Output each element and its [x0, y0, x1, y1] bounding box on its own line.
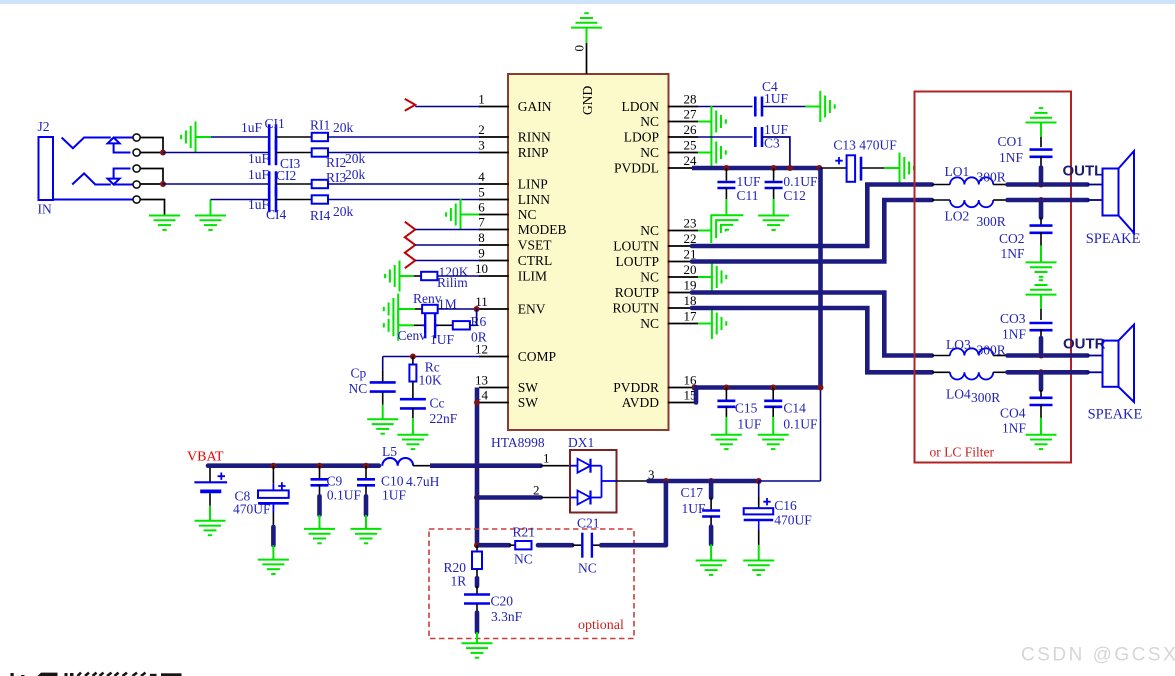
wire LO2 out [993, 199, 1007, 201]
svg-text:LO4: LO4 [946, 387, 971, 402]
svg-text:1NF: 1NF [999, 150, 1023, 165]
wire Renv stem [398, 308, 415, 310]
svg-text:DX1: DX1 [568, 435, 594, 450]
svg-text:optional: optional [578, 618, 624, 633]
bus PVDDL [692, 166, 821, 171]
ground Cenv [384, 310, 398, 341]
wire LO4 out [993, 371, 1007, 373]
svg-text:CO2: CO2 [999, 231, 1025, 246]
wire CI4 to RI4 [276, 199, 312, 201]
inductor L5 [382, 458, 413, 466]
no-connect zigzag pins 7-9 [405, 222, 415, 269]
speaker R cone [1119, 325, 1135, 402]
capacitor C11 lead [725, 168, 727, 181]
svg-text:ENV: ENV [518, 302, 546, 317]
wire LINP row [163, 183, 269, 185]
wire LO3 out [993, 355, 1007, 357]
wire CTRL [415, 260, 480, 262]
wire DX1 pin1 [541, 465, 570, 467]
wire C12 lower [773, 188, 775, 199]
wire LO1 out [993, 184, 1007, 186]
capacitor C11 [717, 181, 735, 184]
pin 4 LINP stub [479, 183, 509, 185]
ground C15 [711, 435, 742, 449]
capacitor C13 plus [835, 157, 842, 164]
junction C12 bus [771, 165, 777, 171]
resistor Rc [409, 365, 416, 382]
wire green stem top ground [586, 28, 588, 43]
wire Rc to Cc [412, 382, 414, 399]
capacitor C14 [764, 399, 782, 402]
svg-text:20: 20 [684, 262, 697, 277]
svg-text:1R: 1R [451, 574, 467, 589]
wire C8 lower [272, 503, 274, 512]
capacitor C10 [357, 478, 375, 481]
battery VBAT plate short [200, 489, 221, 493]
svg-text:LOUTN: LOUTN [613, 239, 659, 254]
pin 13 SW stub [479, 387, 509, 389]
capacitor CO1 [1030, 148, 1053, 151]
wire CI3 to RI2 [276, 152, 312, 154]
junction CO4 [1038, 369, 1044, 375]
svg-text:ILIM: ILIM [518, 269, 547, 284]
pin 20 NC stub [668, 276, 698, 278]
ground top 0 net [571, 13, 602, 27]
J2 sleeve wire [53, 199, 133, 201]
svg-text:0: 0 [572, 45, 587, 52]
wire Cp to ground [382, 393, 384, 405]
svg-text:NC: NC [640, 270, 659, 285]
op-amp U1 HTA8998 body [508, 74, 669, 430]
svg-text:4: 4 [478, 169, 485, 184]
pin 23 NC stub [668, 230, 698, 232]
svg-text:1uF: 1uF [248, 167, 270, 182]
resistor RI3 [312, 180, 328, 188]
capacitor Cc [400, 398, 426, 401]
ground pin17 NC [712, 308, 726, 339]
junction snubber branch [663, 478, 669, 484]
svg-text:CO1: CO1 [998, 134, 1024, 149]
svg-text:C14: C14 [783, 401, 806, 416]
capacitor Cp [370, 381, 396, 384]
wire pin6 stem [461, 214, 480, 216]
bus OUTL minus [1008, 198, 1088, 203]
wire CO1 lower [1040, 156, 1042, 168]
bus PVDD vertical [818, 168, 823, 388]
svg-text:NC: NC [518, 207, 537, 222]
capacitor C16 plate1 [744, 508, 774, 514]
wire RI2 to pin3 [328, 152, 480, 154]
svg-text:RINP: RINP [518, 145, 549, 160]
J2 ring contact lower [72, 173, 111, 184]
wire DX1 join [601, 466, 603, 498]
ground C12 [758, 216, 789, 230]
J2 wire lower line [114, 184, 133, 186]
ground C10 [351, 529, 382, 543]
top blue banner [0, 0, 1175, 4]
J2 switch arrow upper [108, 138, 131, 153]
pin 8 VSET stub [479, 244, 509, 246]
speaker R wires [1088, 355, 1103, 357]
pin 11 ENV stub [479, 308, 509, 310]
capacitor C15 lead [725, 388, 727, 401]
optional dashed box [429, 529, 634, 639]
wire RI3 to pin4 [328, 183, 480, 185]
svg-text:RI1: RI1 [310, 118, 330, 133]
wire DX1 pin3 [617, 480, 649, 482]
wire Cenv to R6 [438, 324, 453, 326]
svg-text:C11: C11 [737, 188, 759, 203]
ground RINN side [181, 122, 195, 153]
wire pin23 stem [698, 230, 711, 232]
svg-text:NC: NC [640, 114, 659, 129]
wire LO1 in [932, 184, 950, 186]
inductor LO2 [950, 200, 993, 207]
wire LDOP to C3 [698, 136, 753, 138]
speaker R body [1103, 341, 1119, 387]
svg-text:1UF: 1UF [737, 174, 761, 189]
bus LOUTP [692, 200, 932, 262]
capacitor C8 plate2 [258, 502, 289, 505]
capacitor CO3 [1030, 322, 1053, 325]
ground jack sleeve [149, 216, 180, 230]
J2 terminal circle 2 [133, 149, 140, 156]
connector J2 body [39, 137, 54, 200]
junction SW pin14 [474, 400, 480, 406]
svg-text:9: 9 [478, 246, 485, 261]
svg-text:5: 5 [478, 185, 485, 200]
ground CO2 [1026, 262, 1057, 276]
svg-text:NC: NC [640, 316, 659, 331]
svg-text:NC: NC [640, 145, 659, 160]
wire C9 lower [319, 485, 321, 496]
svg-text:LDON: LDON [622, 99, 660, 114]
svg-text:20k: 20k [333, 120, 354, 135]
svg-text:20k: 20k [345, 167, 366, 182]
capacitor C17 [702, 509, 720, 512]
svg-text:LO2: LO2 [945, 209, 970, 224]
junction DX1 pin2 row [474, 495, 480, 501]
ground Cp [367, 419, 398, 433]
bus ROUTN [692, 308, 932, 372]
svg-text:VSET: VSET [518, 238, 553, 253]
ground VBAT battery [195, 521, 226, 535]
resistor RI4 [312, 195, 328, 203]
wire GND pin to earth [586, 43, 588, 74]
svg-text:CO4: CO4 [1000, 406, 1026, 421]
wire COMP to Rc [412, 357, 414, 365]
svg-text:PVDDL: PVDDL [614, 161, 659, 176]
bus snubber branch vertical [664, 481, 669, 545]
svg-text:C17: C17 [681, 485, 704, 500]
bus C21 to branch [601, 543, 666, 548]
junction PVDDR corner [818, 385, 824, 391]
svg-text:1uF: 1uF [241, 120, 263, 135]
pin 9 CTRL stub [479, 260, 509, 262]
pin 26 LDOP stub [668, 136, 698, 138]
junction CO1 [1038, 182, 1044, 188]
svg-text:COMP: COMP [518, 349, 556, 364]
bottom caption fragments [11, 673, 74, 676]
ground C13 [900, 153, 914, 184]
svg-text:MODEB: MODEB [518, 222, 567, 237]
wire R6 up to ENV [470, 309, 477, 325]
svg-text:1uF: 1uF [248, 151, 270, 166]
wire c5 to ground [140, 200, 164, 216]
diode D2 [570, 497, 578, 499]
wire R20 to C20 [476, 569, 478, 578]
pin 3 RINP stub [479, 152, 509, 154]
inductor LO4 [950, 372, 993, 379]
LC filter red box [915, 92, 1072, 463]
wire pin20 stem [698, 276, 712, 278]
wire PVDD riser [820, 388, 822, 482]
svg-text:1UF: 1UF [764, 91, 788, 106]
pin 25 NC stub [668, 152, 698, 154]
svg-text:1NF: 1NF [1002, 421, 1026, 436]
junction C14 bus [770, 385, 776, 391]
junction ENV [474, 306, 480, 312]
ground pin25 NC [711, 137, 725, 168]
wire CI1 to RI1 [276, 136, 312, 138]
svg-text:HTA8998: HTA8998 [491, 435, 545, 450]
svg-text:27: 27 [684, 107, 698, 122]
svg-text:LOUTP: LOUTP [616, 254, 660, 269]
svg-text:Rilim: Rilim [437, 275, 468, 290]
svg-text:NC: NC [640, 223, 659, 238]
svg-text:RI2: RI2 [326, 155, 346, 170]
wire RI4 to pin5 [328, 199, 480, 201]
capacitor CO4 [1030, 396, 1053, 399]
svg-text:CO3: CO3 [1000, 311, 1026, 326]
wire pin17 stem [698, 323, 712, 325]
J2 terminal circle 5 [133, 196, 140, 203]
pin 2 RINN stub [479, 136, 509, 138]
pin 7 MODEB stub [479, 229, 509, 231]
J2 terminal circle 1 [133, 134, 140, 141]
wire C4 to ground [762, 106, 806, 108]
junction C11 bus [723, 165, 729, 171]
svg-text:GND: GND [580, 86, 595, 115]
svg-text:10: 10 [475, 261, 488, 276]
wire CI2 to RI3 [276, 183, 312, 185]
svg-text:IN: IN [38, 202, 52, 217]
resistor R6 [453, 321, 470, 329]
svg-text:GAIN: GAIN [518, 99, 552, 114]
resistor R20 [472, 552, 482, 570]
svg-text:PVDDR: PVDDR [613, 380, 659, 395]
wire C3 to bus [762, 137, 790, 168]
svg-text:1UF: 1UF [430, 332, 454, 347]
svg-text:LDOP: LDOP [624, 130, 659, 145]
capacitor C15 [717, 399, 735, 402]
svg-text:SW: SW [518, 380, 539, 395]
resistor Renv [422, 305, 438, 313]
svg-text:22nF: 22nF [430, 411, 458, 426]
ground Rilim [385, 261, 399, 292]
svg-text:LINP: LINP [518, 177, 548, 192]
ground C4 [820, 91, 834, 122]
svg-text:CI4: CI4 [266, 207, 287, 222]
svg-text:Cenv: Cenv [398, 328, 427, 343]
svg-text:3: 3 [478, 138, 485, 153]
resistor R21 [515, 541, 531, 549]
wire C10 lower [365, 485, 367, 496]
svg-text:CTRL: CTRL [518, 253, 553, 268]
wire c2 to junction [140, 152, 163, 154]
wire C14 lower [772, 406, 774, 417]
wire node to R21 [480, 543, 509, 548]
svg-text:NC: NC [514, 552, 533, 567]
ground pin6 NC [446, 199, 460, 230]
bus ROUTP [692, 293, 932, 356]
svg-text:25: 25 [684, 138, 697, 153]
wire CO2 lower [1040, 232, 1042, 246]
capacitor C16 plus [763, 498, 770, 505]
pin 28 LDON stub [668, 106, 698, 108]
pin 12 COMP stub [479, 356, 509, 358]
svg-text:NC: NC [349, 381, 368, 396]
svg-text:OUTL: OUTL [1063, 163, 1104, 180]
capacitor C17 stub [709, 481, 714, 498]
wire Rilim to pin10 [437, 275, 480, 277]
pin 10 ILIM stub [479, 275, 509, 277]
svg-text:2: 2 [533, 483, 540, 498]
svg-text:6: 6 [478, 200, 485, 215]
svg-text:7: 7 [478, 215, 485, 230]
junction LINP [160, 181, 166, 187]
svg-text:RI4: RI4 [310, 208, 331, 223]
wire pin27 stem [698, 121, 711, 123]
junction SW VBAT row [474, 463, 480, 469]
wire CO3 upper [1040, 295, 1042, 309]
pin 1 GAIN stub [479, 106, 509, 108]
battery VBAT top lead [209, 466, 211, 483]
svg-text:LO1: LO1 [945, 164, 970, 179]
svg-text:ROUTP: ROUTP [615, 285, 659, 300]
ground C11 corner style [711, 215, 743, 243]
J2 wire upper line [114, 137, 133, 139]
junction C17 [708, 478, 714, 484]
no-connect chevron pin1 [405, 99, 415, 111]
capacitor C16 lead [758, 481, 760, 497]
svg-text:1: 1 [478, 92, 485, 107]
svg-text:C9: C9 [327, 474, 343, 489]
speaker L body [1103, 169, 1119, 216]
diode pack DX1 body [570, 450, 617, 513]
ground Cc [397, 435, 428, 449]
svg-text:or LC Filter: or LC Filter [930, 445, 995, 460]
inductor LO1 [950, 177, 993, 184]
capacitor C16 plate2 [744, 519, 774, 522]
junction C15 bus [723, 385, 729, 391]
svg-text:SW: SW [518, 395, 539, 410]
svg-text:26: 26 [684, 122, 698, 137]
wire c4 to junction [140, 183, 163, 185]
capacitor C13 plate1 [847, 155, 856, 182]
svg-text:3.3nF: 3.3nF [491, 609, 523, 624]
ground C20 [462, 643, 493, 657]
capacitor C21 [572, 544, 581, 546]
svg-text:1UF: 1UF [737, 417, 761, 432]
svg-text:LINN: LINN [518, 192, 550, 207]
wire C16 lower [758, 520, 760, 530]
pin 6 NC stub [479, 214, 509, 216]
bus OUTR minus [1008, 370, 1088, 375]
ground C9 [304, 529, 335, 543]
svg-text:CI2: CI2 [276, 168, 296, 183]
pin 15 AVDD stub [668, 402, 698, 404]
svg-text:17: 17 [684, 309, 698, 324]
resistor Rilim [421, 272, 437, 280]
capacitor CI4 [268, 187, 271, 213]
battery VBAT bottom lead [209, 493, 211, 506]
wire Cenv stem [398, 324, 414, 326]
ground C8 [258, 560, 289, 574]
battery VBAT plus [218, 473, 225, 480]
J2 switch arrow lower [108, 169, 131, 185]
resistor RI1 [312, 133, 328, 141]
capacitor C12 lead [773, 168, 775, 181]
capacitor C8 plate1 [258, 490, 289, 498]
wire LO3 in [932, 355, 950, 357]
junction C16 [756, 478, 762, 484]
bus PVDDR [692, 385, 821, 390]
wire CO4 lower [1040, 404, 1042, 418]
junction COMP [410, 354, 416, 360]
wire LINN stem [210, 200, 212, 216]
capacitor C3 [754, 127, 757, 147]
junction PVDDL corner [816, 165, 822, 171]
capacitor C8 lead [272, 466, 274, 484]
bus VBAT rail [208, 463, 379, 468]
capacitor C14 lead [772, 388, 774, 401]
junction PVDDR stub [692, 385, 698, 391]
svg-text:13: 13 [475, 373, 488, 388]
svg-text:1UF: 1UF [682, 501, 706, 516]
capacitor C13 plate2 [860, 157, 863, 181]
svg-text:NC: NC [578, 560, 597, 575]
wire c1 to row2 [140, 138, 163, 153]
svg-text:J2: J2 [38, 119, 50, 134]
bus PVDD row [649, 479, 759, 484]
pin 16 PVDDR stub [668, 387, 698, 389]
junction C3 bus [787, 165, 793, 171]
pin 22 LOUTN stub [668, 245, 698, 247]
wire RINN green stem [196, 136, 212, 138]
svg-text:470UF: 470UF [233, 502, 271, 517]
wire R20 top [476, 545, 478, 551]
pin 19 ROUTP stub [668, 292, 698, 294]
wire CO3 lower [1040, 329, 1042, 338]
bus OUTL [1008, 182, 1088, 187]
wire CO2 upper [1039, 200, 1044, 218]
svg-text:C12: C12 [783, 188, 806, 203]
wire GAIN [415, 106, 480, 108]
capacitor CI1 [268, 124, 271, 150]
wire Cc to ground [412, 408, 414, 418]
inductor LO3 [950, 348, 993, 355]
junction C8 [270, 463, 276, 469]
pin 14 SW stub [479, 402, 509, 404]
svg-text:OUTR: OUTR [1063, 336, 1106, 353]
svg-text:300R: 300R [977, 214, 1006, 229]
wire COMP down to Cp [382, 357, 384, 372]
svg-text:R6: R6 [471, 314, 487, 329]
svg-text:0R: 0R [471, 330, 487, 345]
wire PVDD to riser [759, 480, 821, 482]
wire VSET [415, 244, 480, 246]
